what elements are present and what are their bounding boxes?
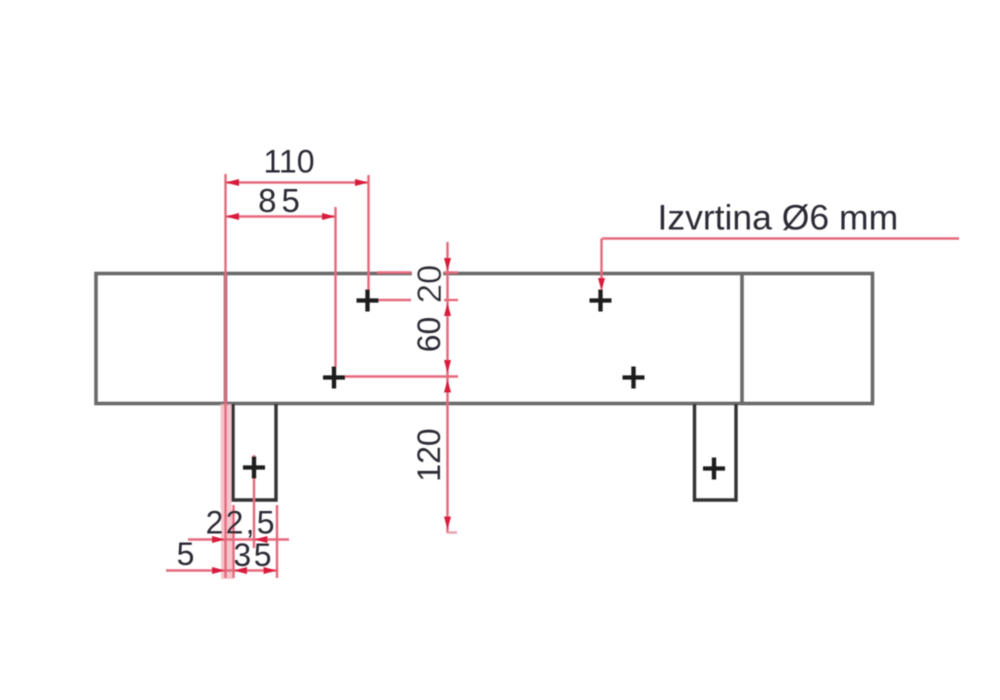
svg-text:35: 35 (233, 537, 274, 573)
right division line (740, 272, 744, 404)
svg-text:5: 5 (177, 536, 195, 572)
svg-text:120: 120 (411, 428, 447, 481)
left division line (224, 272, 228, 404)
arrow left of 85 (226, 213, 240, 220)
svg-text:60: 60 (411, 317, 447, 353)
extension line x=277 (tab right edge) (276, 505, 278, 578)
arrow right of 85 (322, 213, 336, 220)
leader line of hole callout (602, 237, 959, 239)
svg-text:85: 85 (258, 182, 305, 219)
part main bar outline (96, 274, 873, 404)
extension line x=233.5 (tab left edge) (232, 505, 234, 578)
left mounting tab (233, 404, 276, 500)
hole cross D (623, 367, 645, 389)
svg-text:22,5: 22,5 (206, 505, 277, 541)
extension at top edge y=272 right part (444, 271, 458, 273)
arrow at x=254 pointing left (254, 536, 268, 543)
white underlay behind label 20 (412, 258, 443, 306)
extension at top edge y=272 (377, 271, 411, 273)
hole cross B (323, 367, 345, 389)
hole cross C (590, 290, 612, 312)
extension line x=335.5 (85 right) (334, 207, 336, 367)
dimension line 110 (226, 181, 369, 183)
leader vertical segment (600, 239, 602, 281)
dimension line 22,5 (188, 538, 289, 540)
arrow left of 110 (226, 179, 240, 186)
extension at hole row1 y=300 (372, 299, 411, 301)
leader arrow (598, 278, 605, 291)
svg-text:110: 110 (263, 144, 314, 180)
arrow at x=277 pointing right (264, 567, 278, 574)
dimension line 5 / 35 (166, 569, 278, 571)
arrow up to hole row 1 (444, 303, 451, 316)
arrow at x=233.5 pointing left (234, 567, 248, 574)
arrow at x=225.5 pointing right (212, 536, 226, 543)
extension line x=225.5 (left datum) (224, 174, 226, 578)
hole cross A (357, 290, 379, 312)
arrow down at 120 end (444, 517, 451, 530)
hole cross E (243, 457, 265, 479)
pale pink extension band below left division (221, 404, 232, 509)
arrow at x=225.5 pointing right (212, 567, 226, 574)
arrow up from below hole row 2 (444, 380, 451, 393)
extension line x=254 (hole in left tab) (253, 455, 255, 548)
extension at hole row1 y=300 right part (444, 299, 458, 301)
vertical dimension chain line (446, 242, 448, 533)
arrow down to hole row 2 (444, 360, 451, 373)
right mounting tab (695, 404, 737, 500)
chain hook bottom (448, 531, 458, 533)
arrow right of 110 (355, 179, 369, 186)
extension at hole row2 y=376.5 (345, 375, 458, 377)
svg-text:20: 20 (411, 265, 449, 303)
arrow down to top edge (444, 258, 451, 271)
hole cross F (703, 458, 725, 480)
dimension line 85 (226, 215, 336, 217)
extension line x=368.5 (110 right) (367, 175, 369, 291)
svg-text:Izvrtina Ø6 mm: Izvrtina Ø6 mm (658, 198, 899, 238)
